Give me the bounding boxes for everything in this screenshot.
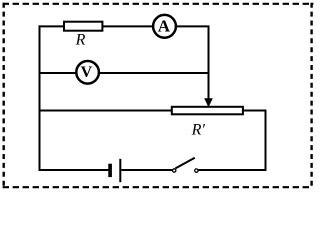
svg-text:R′: R′ [191,121,206,138]
svg-text:V: V [81,64,93,81]
wire: switch to right bus [199,169,267,171]
svg-text:R: R [75,32,86,49]
arrowhead of rheostat wiper [204,98,213,107]
resistor R [64,22,102,31]
rheostat R' body [172,107,243,115]
svg-text:A: A [158,17,171,36]
battery positive plate (long thin) [119,159,121,182]
wire: battery to switch [121,169,172,171]
wire: bottom row from left bus to battery [39,169,109,171]
switch fixed contact [195,169,198,172]
wire: left vertical bus [39,25,41,171]
switch lever [175,158,194,169]
voltmeter V [76,61,99,84]
wire: top row from left bus to resistor R [39,25,65,27]
wire: rheostat row left segment [39,110,172,112]
wire: ammeter to top-right corner then down to wiper [176,26,209,101]
ammeter A [153,15,176,38]
wire: rheostat to right bus [243,110,267,112]
wire: voltmeter to vertical wiper wire [99,72,209,74]
battery negative plate (short thick) [108,164,112,177]
switch pivot contact [173,169,176,172]
wire: resistor to ammeter [102,25,153,27]
wire: voltmeter row left segment [39,72,76,74]
wire: right vertical bus [265,110,267,172]
